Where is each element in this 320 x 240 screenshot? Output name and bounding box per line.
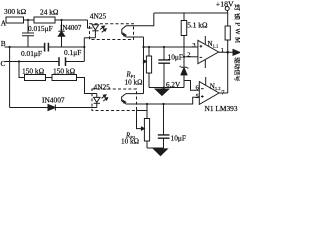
wire A top line (6, 19, 88, 21)
svg-text:IN4007: IN4007 (42, 96, 65, 105)
svg-text:0.015μF: 0.015μF (28, 24, 53, 33)
opto2 emission arrows (102, 95, 107, 99)
wire pin6 to ground node (184, 81, 199, 91)
capacitor C1 0.015uF (22, 33, 34, 36)
wire corner into opto1 (88, 20, 93, 28)
node A (0, 0, 1, 1)
diode D1 IN4007 vertical (61, 20, 63, 31)
optocoupler U3 4N25 dashed box (92, 89, 137, 111)
svg-text:150 kΩ: 150 kΩ (53, 66, 76, 75)
wire 5.1k to zener (183, 36, 185, 68)
svg-text:10μF: 10μF (168, 53, 183, 62)
svg-text:150 kΩ: 150 kΩ (22, 66, 45, 75)
wire junction to C1 (27, 20, 29, 33)
svg-text:0.01μF: 0.01μF (21, 49, 42, 58)
wire main vertical (emitter / wiper / opto2 collector) (143, 37, 145, 94)
wire opto1 emitter to main vertical (134, 36, 144, 38)
wire C to 150k row (19, 62, 25, 78)
ground symbol bottom (160, 147, 162, 150)
svg-text:A: A (1, 18, 7, 27)
+18V terminal (225, 7, 229, 11)
svg-text:N1 LM393: N1 LM393 (205, 104, 238, 113)
svg-text:4N25: 4N25 (94, 83, 111, 92)
wire output2 (219, 92, 228, 94)
wire 150k row to opto2 LED (77, 78, 97, 94)
wire opto2 emitter line (137, 97, 200, 104)
svg-text:10 kΩ: 10 kΩ (121, 138, 139, 146)
svg-text:B: B (1, 39, 6, 48)
wire B to bottom branch (9, 47, 11, 108)
svg-text:0.1μF: 0.1μF (64, 48, 81, 57)
output arrow (233, 50, 240, 56)
opto1 phototransistor (122, 26, 126, 37)
capacitor C2 0.01uF series (45, 43, 49, 52)
wire pin2 to zener node (184, 56, 198, 58)
op-amp N1.1 (198, 40, 219, 63)
ground rail mid (149, 87, 184, 89)
ground symbol mid (161, 88, 163, 90)
diode D2 IN4007 horizontal (10, 107, 48, 109)
wire node C line (5, 61, 85, 63)
svg-text:IN4007: IN4007 (60, 24, 82, 32)
capacitor C5 10uF (162, 103, 164, 105)
capacitor C4 10uF (163, 47, 165, 60)
svg-text:5.1 kΩ: 5.1 kΩ (187, 20, 208, 29)
op-amp N1.2 (199, 82, 219, 105)
potentiometer RP2 (146, 103, 148, 105)
resistor R6 pull-up box (227, 13, 229, 26)
svg-text:封锁PWM: 封锁PWM (233, 4, 240, 45)
opto2 phototransistor (122, 94, 126, 104)
zener diode VZ 6.2V (180, 66, 188, 69)
junction dot D1 top (60, 19, 62, 21)
wire opto2 collector (137, 93, 144, 95)
wire between 150k (46, 77, 53, 79)
+18V rail (154, 12, 228, 14)
opto1 LED (92, 24, 98, 30)
capacitor C3 0.1uF series (59, 57, 66, 66)
svg-text:24 kΩ: 24 kΩ (40, 8, 59, 17)
resistor 300k box (6, 17, 24, 23)
svg-text:300 kΩ: 300 kΩ (4, 7, 27, 16)
resistor R4 150k box (52, 75, 77, 81)
wire output1 to output2 (227, 52, 229, 93)
wire vertical B/C coupling (83, 38, 85, 62)
svg-text:2: 2 (187, 51, 190, 58)
resistor R3 150k box (25, 75, 46, 81)
opto2 LED (94, 94, 100, 103)
svg-text:10 kΩ: 10 kΩ (125, 79, 143, 87)
svg-text:1: 1 (221, 47, 224, 54)
wire node B line (5, 46, 85, 48)
resistor 24k box (34, 17, 55, 23)
opto1 emission arrows (100, 26, 105, 30)
optocoupler U2 4N25 dashed box (90, 24, 134, 40)
potentiometer RP1 (148, 46, 150, 48)
svg-text:C: C (1, 59, 6, 68)
svg-text:4N25: 4N25 (90, 11, 107, 20)
svg-text:+18V: +18V (216, 0, 234, 8)
wire output1 (219, 51, 236, 53)
ground line bottom (147, 147, 164, 149)
svg-text:10μF: 10μF (171, 134, 186, 143)
wire comparator pin3 line (144, 46, 198, 48)
wire opto1 cathode return to B (84, 37, 95, 39)
wire rail down to opto1 collector (134, 13, 154, 26)
svg-text:6.2V: 6.2V (166, 81, 181, 89)
resistor R5 5.1k box (183, 13, 185, 21)
